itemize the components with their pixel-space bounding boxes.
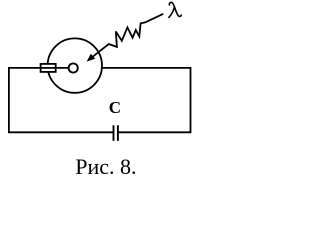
svg-text:Рис. 8.: Рис. 8.	[75, 154, 136, 179]
svg-text:C: C	[109, 98, 121, 117]
